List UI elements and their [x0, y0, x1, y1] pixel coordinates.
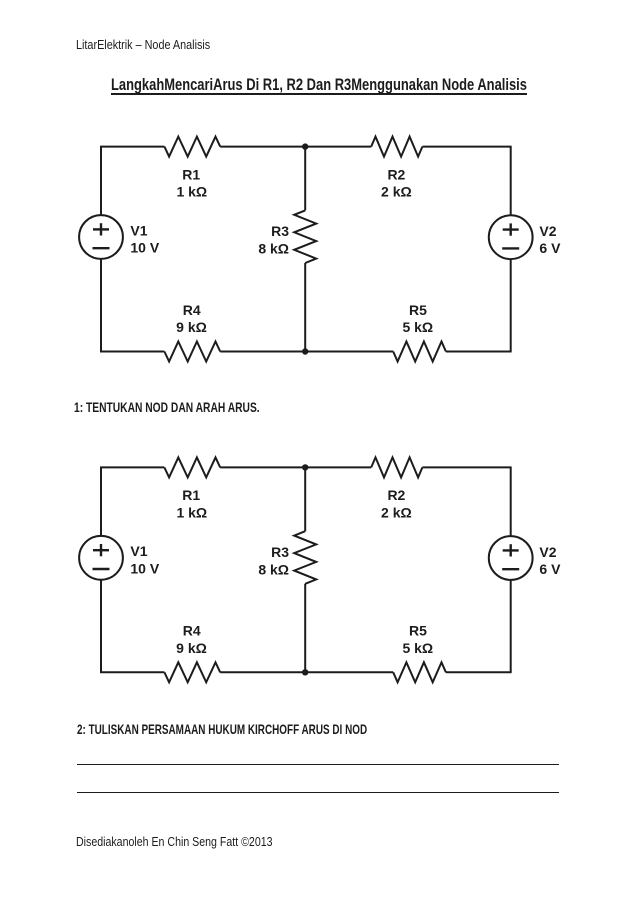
resistor R1 (circuit 1) — [164, 137, 220, 157]
wire: top-left segment (circuit 1) — [100, 146, 164, 148]
wire: bottom-middle segment (circuit 2) — [220, 671, 393, 673]
answer blank line 2 — [77, 792, 558, 793]
running header text — [76, 38, 237, 51]
wire: left side lower (circuit 1) — [100, 259, 102, 352]
svg-text:1 kΩ: 1 kΩ — [176, 504, 207, 520]
answer blank line 1 — [77, 764, 558, 765]
node: top junction dot (circuit 1) — [302, 143, 308, 149]
wire: left side upper (circuit 2) — [100, 467, 102, 536]
voltage source V1 (circuit 2): circle with plus/minus — [79, 536, 123, 580]
svg-text:V2: V2 — [539, 223, 556, 239]
wire: middle branch lower (circuit 2) — [304, 584, 306, 673]
resistor R3 (circuit 2) — [294, 531, 316, 584]
resistor R2 (circuit 2) — [371, 457, 422, 477]
node: bottom junction dot (circuit 2) — [302, 669, 308, 675]
resistor R3 (circuit 1) — [294, 210, 316, 263]
wire: bottom-middle segment (circuit 1) — [220, 351, 393, 353]
svg-text:9 kΩ: 9 kΩ — [176, 640, 207, 656]
svg-text:R4: R4 — [183, 623, 201, 639]
svg-text:8 kΩ: 8 kΩ — [258, 241, 289, 257]
svg-text:V1: V1 — [130, 543, 147, 559]
footer credit text — [76, 835, 317, 848]
wire: right side lower (circuit 1) — [510, 259, 512, 351]
wire: bottom-right segment (circuit 2) — [446, 671, 512, 673]
svg-text:10 V: 10 V — [130, 240, 159, 256]
wire: middle branch lower (circuit 1) — [304, 263, 306, 352]
svg-text:R1: R1 — [182, 166, 200, 182]
resistor R4 (circuit 2) — [164, 662, 220, 682]
section heading step 1 — [74, 400, 327, 414]
wire: middle branch upper (circuit 1) — [304, 147, 306, 211]
wire: middle branch upper (circuit 2) — [304, 467, 306, 531]
wire: top-right segment (circuit 2) — [422, 466, 511, 468]
wire: left side upper (circuit 1) — [100, 147, 102, 216]
wire: top-middle segment (circuit 1) — [220, 146, 371, 148]
svg-text:8 kΩ: 8 kΩ — [258, 561, 289, 577]
section heading step 2 — [77, 722, 486, 736]
voltage source V2 (circuit 2): circle with plus/minus — [489, 536, 533, 580]
svg-text:2 kΩ: 2 kΩ — [381, 504, 412, 520]
resistor R4 (circuit 1) — [164, 342, 220, 362]
node: bottom junction dot (circuit 1) — [302, 348, 308, 354]
svg-text:R3: R3 — [271, 223, 289, 239]
wire: right side upper (circuit 2) — [510, 467, 512, 536]
svg-text:V2: V2 — [539, 544, 556, 560]
svg-text:6 V: 6 V — [539, 561, 561, 577]
svg-text:R1: R1 — [182, 487, 200, 503]
svg-text:R2: R2 — [387, 166, 405, 182]
wire: left side lower (circuit 2) — [100, 580, 102, 673]
wire: bottom-left segment (circuit 1) — [100, 351, 164, 353]
wire: top-right segment (circuit 1) — [422, 146, 511, 148]
wire: top-middle segment (circuit 2) — [220, 466, 371, 468]
svg-text:V1: V1 — [130, 222, 147, 238]
wire: bottom-left segment (circuit 2) — [100, 671, 164, 673]
voltage source V2 (circuit 1): circle with plus/minus — [489, 215, 533, 259]
document title (bold, underlined) — [111, 76, 638, 93]
svg-text:6 V: 6 V — [539, 240, 561, 256]
svg-text:5 kΩ: 5 kΩ — [402, 640, 433, 656]
svg-text:R2: R2 — [387, 487, 405, 503]
resistor R5 (circuit 1) — [393, 342, 446, 362]
svg-text:5 kΩ: 5 kΩ — [402, 319, 433, 335]
title underline rule — [111, 93, 527, 95]
resistor R2 (circuit 1) — [371, 137, 422, 157]
svg-text:R5: R5 — [409, 302, 427, 318]
node: top junction dot (circuit 2) — [302, 464, 308, 470]
svg-text:9 kΩ: 9 kΩ — [176, 319, 207, 335]
svg-text:10 V: 10 V — [130, 560, 159, 576]
svg-text:1 kΩ: 1 kΩ — [176, 184, 207, 200]
resistor R5 (circuit 2) — [393, 662, 446, 682]
wire: top-left segment (circuit 2) — [100, 466, 164, 468]
svg-text:2 kΩ: 2 kΩ — [381, 184, 412, 200]
wire: right side lower (circuit 2) — [510, 580, 512, 672]
resistor R1 (circuit 2) — [164, 457, 220, 477]
wire: bottom-right segment (circuit 1) — [446, 351, 512, 353]
wire: right side upper (circuit 1) — [510, 147, 512, 216]
svg-text:R3: R3 — [271, 544, 289, 560]
svg-text:R5: R5 — [409, 623, 427, 639]
svg-text:R4: R4 — [183, 302, 201, 318]
voltage source V1 (circuit 1): circle with plus/minus — [79, 215, 123, 259]
